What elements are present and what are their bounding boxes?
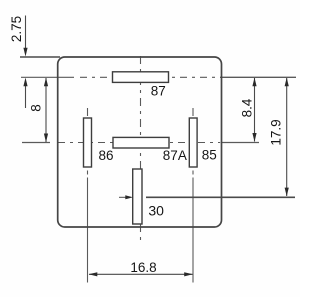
svg-text:8: 8: [29, 104, 44, 112]
terminal slot 85: [189, 118, 197, 167]
top edge extension line: [20, 56, 60, 58]
slot 30 center leader line to 17.9 dimension: [146, 196, 295, 198]
dimension 17.9: [286, 78, 288, 196]
svg-text:8.4: 8.4: [240, 98, 255, 117]
centerline A horizontal through slot 87: [21, 76, 296, 78]
terminal slot 30: [133, 169, 142, 224]
terminal slot 87: [113, 72, 169, 83]
relay body outline: [58, 57, 222, 227]
vertical centerline through 87 87A 30: [140, 56, 142, 243]
svg-text:87: 87: [151, 83, 166, 98]
dimension 2.75: [25, 16, 27, 109]
dimension 16.8: [89, 273, 193, 275]
centerline B horizontal through slots 86 87A 85: [22, 142, 259, 144]
svg-text:2.75: 2.75: [9, 16, 24, 42]
dimension 8: [45, 78, 47, 142]
svg-text:17.9: 17.9: [269, 119, 284, 145]
centerline of slot 85 vertical: [192, 108, 194, 283]
svg-text:85: 85: [202, 148, 217, 163]
svg-text:86: 86: [99, 148, 114, 163]
svg-text:16.8: 16.8: [130, 260, 156, 275]
dimension 8.4: [254, 78, 256, 142]
centerline of slot 86 vertical: [87, 108, 89, 283]
svg-text:87A: 87A: [163, 148, 187, 163]
slot 30 leader arrowhead: [119, 196, 127, 198]
terminal slot 86: [84, 118, 92, 167]
terminal slot 87A: [113, 137, 169, 148]
svg-text:30: 30: [148, 203, 164, 219]
